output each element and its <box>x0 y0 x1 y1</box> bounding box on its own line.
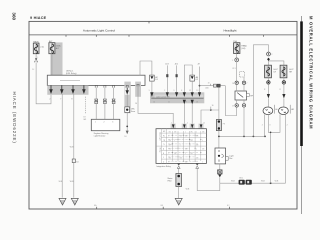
end arrow connector <box>126 131 129 135</box>
wire to ground bolt B <box>219 164 221 170</box>
svg-text:9 HIACE: 9 HIACE <box>30 16 47 20</box>
svg-text:A14: A14 <box>175 63 178 66</box>
svg-text:Relay: Relay <box>159 148 161 153</box>
ground point left 1 <box>59 198 66 205</box>
ground IH <box>175 198 182 205</box>
dimmer switch feed from LCS <box>225 86 236 116</box>
wire W-B ground run 2 <box>73 94 75 198</box>
high beam return wire <box>219 135 265 137</box>
inline connector IF1 <box>94 99 98 119</box>
wire below indicator with junction <box>126 113 128 131</box>
noise filter capsule <box>168 174 182 187</box>
svg-text:Ret: Ret <box>229 157 232 160</box>
svg-text:2: 2 <box>104 122 105 124</box>
grey band power feed (left) <box>50 42 62 75</box>
svg-text:13: 13 <box>196 102 198 104</box>
svg-text:ON: ON <box>185 136 187 138</box>
low beam junction drop <box>270 132 272 183</box>
headlight LH bulb <box>263 105 278 115</box>
svg-text:1: 1 <box>232 60 233 62</box>
wire diode to band <box>151 81 153 92</box>
inline connector IF2 <box>103 99 107 119</box>
svg-text:16: 16 <box>232 83 234 85</box>
svg-text:7: 7 <box>246 83 247 85</box>
diode D1 <box>125 88 130 95</box>
stub wires into integration relay <box>218 87 220 148</box>
svg-text:F8: F8 <box>223 124 225 126</box>
wire noise filter to ground <box>178 187 180 199</box>
right margin section bar <box>300 21 303 146</box>
svg-text:1J: 1J <box>32 69 34 71</box>
svg-text:ON: ON <box>196 136 198 138</box>
pin number labels above light control switch band <box>149 90 199 92</box>
svg-text:2: 2 <box>262 124 263 126</box>
wire node 1J down / right to junction block connector <box>36 62 51 103</box>
svg-text:16: 16 <box>124 136 126 138</box>
connector below MAIN link <box>35 58 37 60</box>
svg-text:14: 14 <box>135 103 137 105</box>
H-LP fuse LH <box>265 65 279 78</box>
ground bolt A <box>216 120 224 131</box>
wires to integration relay <box>183 104 185 125</box>
svg-text:ON: ON <box>174 153 176 155</box>
svg-text:2: 2 <box>49 99 50 101</box>
wire fusible link ALT to junction block <box>51 54 53 75</box>
svg-text:ON: ON <box>180 157 182 159</box>
svg-text:B: B <box>163 153 164 155</box>
pin column 5 <box>137 84 140 86</box>
tick on top frame line <box>148 21 150 23</box>
inline connectors on ground bus <box>239 178 252 185</box>
svg-text:7: 7 <box>171 122 172 124</box>
title separator line <box>29 34 297 36</box>
svg-text:Filter: Filter <box>168 179 173 182</box>
svg-text:ON: ON <box>202 149 204 151</box>
grey band DRL column <box>124 82 130 114</box>
svg-text:16: 16 <box>212 105 214 107</box>
svg-text:ON: ON <box>190 131 192 133</box>
headlight RH return down <box>285 114 287 183</box>
connector pair below integration relay right <box>196 163 199 168</box>
svg-text:7: 7 <box>60 99 61 101</box>
svg-text:9: 9 <box>174 90 175 92</box>
svg-text:ON: ON <box>180 136 182 138</box>
inline connector BJ on ground run 2 <box>72 159 75 163</box>
svg-text:HL: HL <box>275 109 277 111</box>
svg-text:12: 12 <box>189 90 191 92</box>
diagram frame <box>29 21 297 209</box>
inline connector on dimmer feed <box>208 83 221 88</box>
diode in light control switch (left) <box>150 75 158 81</box>
svg-text:ON: ON <box>185 149 187 151</box>
svg-text:Auto Light: Auto Light <box>159 132 162 141</box>
svg-text:Light Resistor: Light Resistor <box>94 135 106 138</box>
svg-text:IH1: IH1 <box>83 119 86 121</box>
svg-text:ON: ON <box>169 149 171 151</box>
daytime running light resistor box <box>91 119 120 137</box>
svg-text:Light Control SW: Light Control SW <box>156 96 170 99</box>
connector arrow 1C <box>71 85 75 100</box>
svg-text:1: 1 <box>95 122 96 124</box>
wire to noise filter <box>178 168 180 173</box>
svg-text:ON: ON <box>174 131 176 133</box>
pin at box bottom DRL column <box>126 85 129 87</box>
grey connector band under junction block <box>47 85 88 94</box>
svg-text:11: 11 <box>168 102 170 104</box>
svg-text:BO1: BO1 <box>239 178 243 180</box>
wire to dimmer top pin <box>236 62 238 81</box>
rear ground bus wire <box>220 182 286 184</box>
dimmer pin stems <box>236 85 238 92</box>
svg-text:ON: ON <box>185 162 187 164</box>
dimmer switch box <box>235 91 254 100</box>
svg-text:2: 2 <box>187 122 188 124</box>
wire column HU to dimmer <box>198 63 226 93</box>
grey band column 5 <box>135 82 141 97</box>
lower mating arrows <box>183 100 194 105</box>
svg-text:18: 18 <box>208 83 210 85</box>
svg-text:2: 2 <box>287 124 288 126</box>
svg-text:Fuse: Fuse <box>131 111 135 113</box>
H-LP fuse RH <box>280 65 294 78</box>
svg-text:ON: ON <box>196 157 198 159</box>
svg-text:(LH): (LH) <box>241 48 245 50</box>
inline connector IF3 <box>112 99 116 119</box>
connector circle feed <box>267 52 271 56</box>
svg-text:OFF: OFF <box>169 144 172 146</box>
right margin rule <box>301 16 303 214</box>
diode in light control switch (right) <box>190 75 198 81</box>
svg-text:HL: HL <box>163 136 165 138</box>
svg-text:360: 360 <box>12 12 17 20</box>
wire head fuse to connector circle <box>236 54 238 59</box>
junction block pin 11 <box>112 85 115 98</box>
connector arrow 1B <box>60 85 64 100</box>
HEAD fuse <box>233 40 247 54</box>
light control switch loop wire <box>184 65 192 93</box>
ticks on separator line <box>66 35 264 37</box>
svg-text:TL: TL <box>163 144 165 146</box>
headlight feed loop <box>253 45 268 137</box>
svg-text:A16: A16 <box>206 86 209 89</box>
wire table to rear run <box>197 168 220 190</box>
svg-text:BJ: BJ <box>76 161 78 163</box>
arrows into integration relay <box>171 124 204 130</box>
band arrows light control switch <box>150 92 201 97</box>
integration relay box with internal table <box>156 129 206 168</box>
svg-text:3: 3 <box>112 122 113 124</box>
wire W-B ground run 1 <box>61 94 63 198</box>
svg-text:ON: ON <box>169 140 171 142</box>
wire below diode <box>126 95 128 107</box>
dimmer switch bottom pins <box>235 104 238 107</box>
connector pair below integration relay left <box>177 163 180 168</box>
svg-text:(DRL Relay): (DRL Relay) <box>66 73 77 75</box>
svg-text:5: 5 <box>149 90 150 92</box>
bottom frame ticks <box>97 207 230 209</box>
svg-text:ON: ON <box>202 131 204 133</box>
svg-text:ON: ON <box>190 153 192 155</box>
fusible link MAIN (F1) <box>33 40 45 53</box>
junction block pin 9 <box>95 85 98 98</box>
headlight LH high wire <box>268 114 280 132</box>
wire MAIN link down <box>35 54 37 59</box>
light retainer relay box (transistor) <box>215 148 234 164</box>
shielded wire stub (dashed) <box>85 97 87 114</box>
light control switch label strip <box>155 95 204 98</box>
switch column A14 <box>175 63 178 93</box>
connector arrow 1A <box>49 85 53 100</box>
wire junction block to light control switch <box>140 61 152 75</box>
switch column A13 <box>165 63 168 93</box>
svg-text:Integration Relay: Integration Relay <box>156 165 170 168</box>
svg-text:D2: D2 <box>196 79 198 81</box>
svg-text:7: 7 <box>186 102 187 104</box>
headlight RH feed chain <box>280 78 286 107</box>
grey band light control switch <box>150 92 204 103</box>
svg-text:13: 13 <box>196 90 198 92</box>
flash feed sub box <box>240 72 245 77</box>
DRL indicator (dot box) <box>125 107 135 113</box>
fusible link ALT (F2) <box>49 40 61 54</box>
svg-text:8: 8 <box>181 90 182 92</box>
svg-text:1: 1 <box>37 57 38 59</box>
wire column 5 <box>138 86 173 124</box>
svg-text:HIACE (EWD622E): HIACE (EWD622E) <box>12 92 17 144</box>
ground bolt B <box>218 170 223 178</box>
svg-text:D1: D1 <box>155 79 157 81</box>
svg-text:ON: ON <box>190 140 192 142</box>
svg-text:M OVERALL ELECTRICAL WIRING D: M OVERALL ELECTRICAL WIRING DIAGRAM <box>308 16 313 129</box>
branch to RH fuse <box>269 61 284 65</box>
headlight RH bulb <box>279 105 295 115</box>
splice diamond <box>267 58 270 61</box>
svg-text:3: 3 <box>269 124 270 126</box>
svg-text:Headlight: Headlight <box>223 28 236 32</box>
headlight LH feed chain <box>264 78 270 107</box>
wire diode right to band <box>191 81 193 92</box>
svg-text:2: 2 <box>164 90 165 92</box>
svg-text:17: 17 <box>232 105 234 107</box>
dimmer switch top pins <box>235 81 238 84</box>
svg-text:ON: ON <box>169 157 171 159</box>
svg-text:A13: A13 <box>165 63 168 66</box>
svg-text:A7: A7 <box>198 63 200 66</box>
connector circle H3 <box>235 58 239 62</box>
svg-text:14: 14 <box>153 102 155 104</box>
svg-text:Automatic Light Control: Automatic Light Control <box>83 28 115 32</box>
ground point left 2 <box>71 198 78 205</box>
light control switch internal bus <box>151 97 203 99</box>
svg-text:2: 2 <box>271 54 272 56</box>
junction block pin 10 <box>104 85 107 98</box>
svg-text:ON: ON <box>169 131 171 133</box>
connector arrow 1D <box>82 85 86 94</box>
headlight LH low wire <box>264 114 266 136</box>
svg-text:1: 1 <box>180 144 181 146</box>
dimmer low output to ground wire <box>243 107 245 136</box>
svg-text:12: 12 <box>203 122 205 124</box>
svg-text:ON: ON <box>196 144 198 146</box>
svg-text:8: 8 <box>71 99 72 101</box>
junction block no.1 box <box>47 71 145 89</box>
